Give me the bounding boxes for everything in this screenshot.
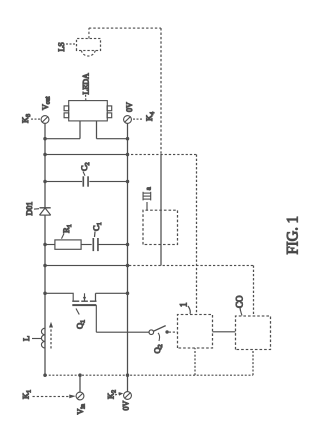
wire LEDA pin 2 (96, 120, 127, 138)
svg-text:K1: K1 (20, 389, 32, 398)
dot line2 rail A (43, 152, 47, 156)
transformer box IIIa (143, 210, 178, 244)
loudspeaker LS (76, 38, 100, 56)
svg-text:K2: K2 (105, 389, 117, 398)
wire between blocks (212, 330, 235, 332)
dot line2 rail B (125, 152, 129, 156)
svg-text:LEDA: LEDA (81, 72, 90, 94)
svg-text:D01: D01 (25, 201, 34, 215)
terminal K2 0V (123, 391, 131, 399)
dot node mid rail A (43, 263, 47, 267)
svg-text:LS: LS (57, 42, 66, 51)
dashed feed rail to unit 1 (131, 154, 197, 314)
svg-text:K4: K4 (144, 111, 156, 120)
capacitor C2 (45, 180, 82, 182)
svg-text:R1: R1 (61, 224, 73, 233)
rail A Vout rail (44, 123, 46, 375)
dot node mid rail B (125, 263, 129, 267)
svg-text:Vin: Vin (76, 404, 87, 414)
node line mid (45, 264, 128, 266)
leader LS (66, 43, 75, 45)
capacitor C1 (93, 238, 98, 251)
arrow current dashed (50, 328, 52, 349)
dot Q1 drain on rail A (43, 291, 47, 295)
dot C2 rail A (43, 179, 47, 183)
leader CO (240, 307, 242, 315)
LED module LEDA (68, 100, 107, 120)
leader C2 (83, 171, 85, 175)
dot C1 rail B (125, 242, 129, 246)
unit CO block (235, 316, 270, 350)
svg-text:Vout: Vout (41, 96, 52, 110)
arrow K2 to terminal (115, 393, 119, 394)
leader R1 (61, 233, 64, 238)
leader D01 (34, 207, 39, 209)
dot LEDA pin2 rail B (125, 136, 129, 140)
leader C1 (93, 231, 96, 237)
transistor Q1 channel (72, 300, 96, 302)
wire drop to unit 1 (194, 348, 196, 375)
leader LEDA (84, 94, 86, 100)
svg-text:L: L (21, 335, 31, 340)
svg-text:C2: C2 (79, 162, 91, 171)
dot LEDA pin1 rail A (43, 136, 47, 140)
arrow K1 to terminal (32, 395, 69, 397)
transistor Q1 drain wire (45, 293, 73, 301)
terminal K1 Vin (76, 392, 84, 400)
wire left return vertical (45, 374, 253, 376)
dashed feed to unit CO (129, 265, 254, 315)
svg-text:1: 1 (178, 302, 188, 307)
switch Q2 (149, 329, 154, 334)
dashed wire switch to unit 1 (168, 331, 177, 333)
leader Q2 (158, 332, 160, 340)
leader IIIa (146, 202, 148, 210)
dot Q1 source on rail B (125, 291, 129, 295)
dot C2 rail B (125, 179, 129, 183)
transistor Q1 body tap (83, 293, 85, 300)
svg-text:0V: 0V (121, 400, 130, 410)
leader K4 (133, 118, 143, 120)
leader K3 (31, 118, 40, 120)
terminal K4 0V top (123, 115, 131, 123)
wire drop to unit CO (252, 349, 254, 375)
wire LEDA pin 1 (45, 120, 80, 138)
dashed coupling wire LS to unit (88, 28, 160, 154)
svg-text:Q1: Q1 (74, 319, 86, 328)
transistor Q1 gate bar (72, 304, 96, 306)
dot R1 rail A (43, 242, 47, 246)
node wire line2 (45, 153, 128, 155)
resistor R1 (45, 243, 55, 245)
leader Q1 (76, 308, 79, 314)
leader 1 (188, 306, 190, 314)
leader L (32, 337, 42, 339)
unit 1 block (177, 314, 212, 348)
svg-text:C1: C1 (91, 222, 103, 231)
inductor L coil (41, 328, 45, 348)
svg-text:CO: CO (234, 294, 244, 307)
rail B 0V rail (126, 123, 128, 391)
transistor Q1 source wire (95, 293, 127, 301)
label IIIa (143, 191, 151, 200)
svg-text:K3: K3 (20, 113, 32, 122)
diode D01 (39, 206, 50, 208)
svg-text:0V: 0V (125, 102, 134, 112)
node junction dots left (43, 373, 129, 377)
svg-text:FIG. 1: FIG. 1 (284, 216, 301, 255)
terminal K3 Vout (41, 115, 49, 123)
svg-text:a: a (144, 186, 152, 190)
svg-text:Q2: Q2 (152, 344, 164, 353)
wire Q1 gate (96, 305, 149, 332)
wire through IIIa (160, 154, 162, 265)
